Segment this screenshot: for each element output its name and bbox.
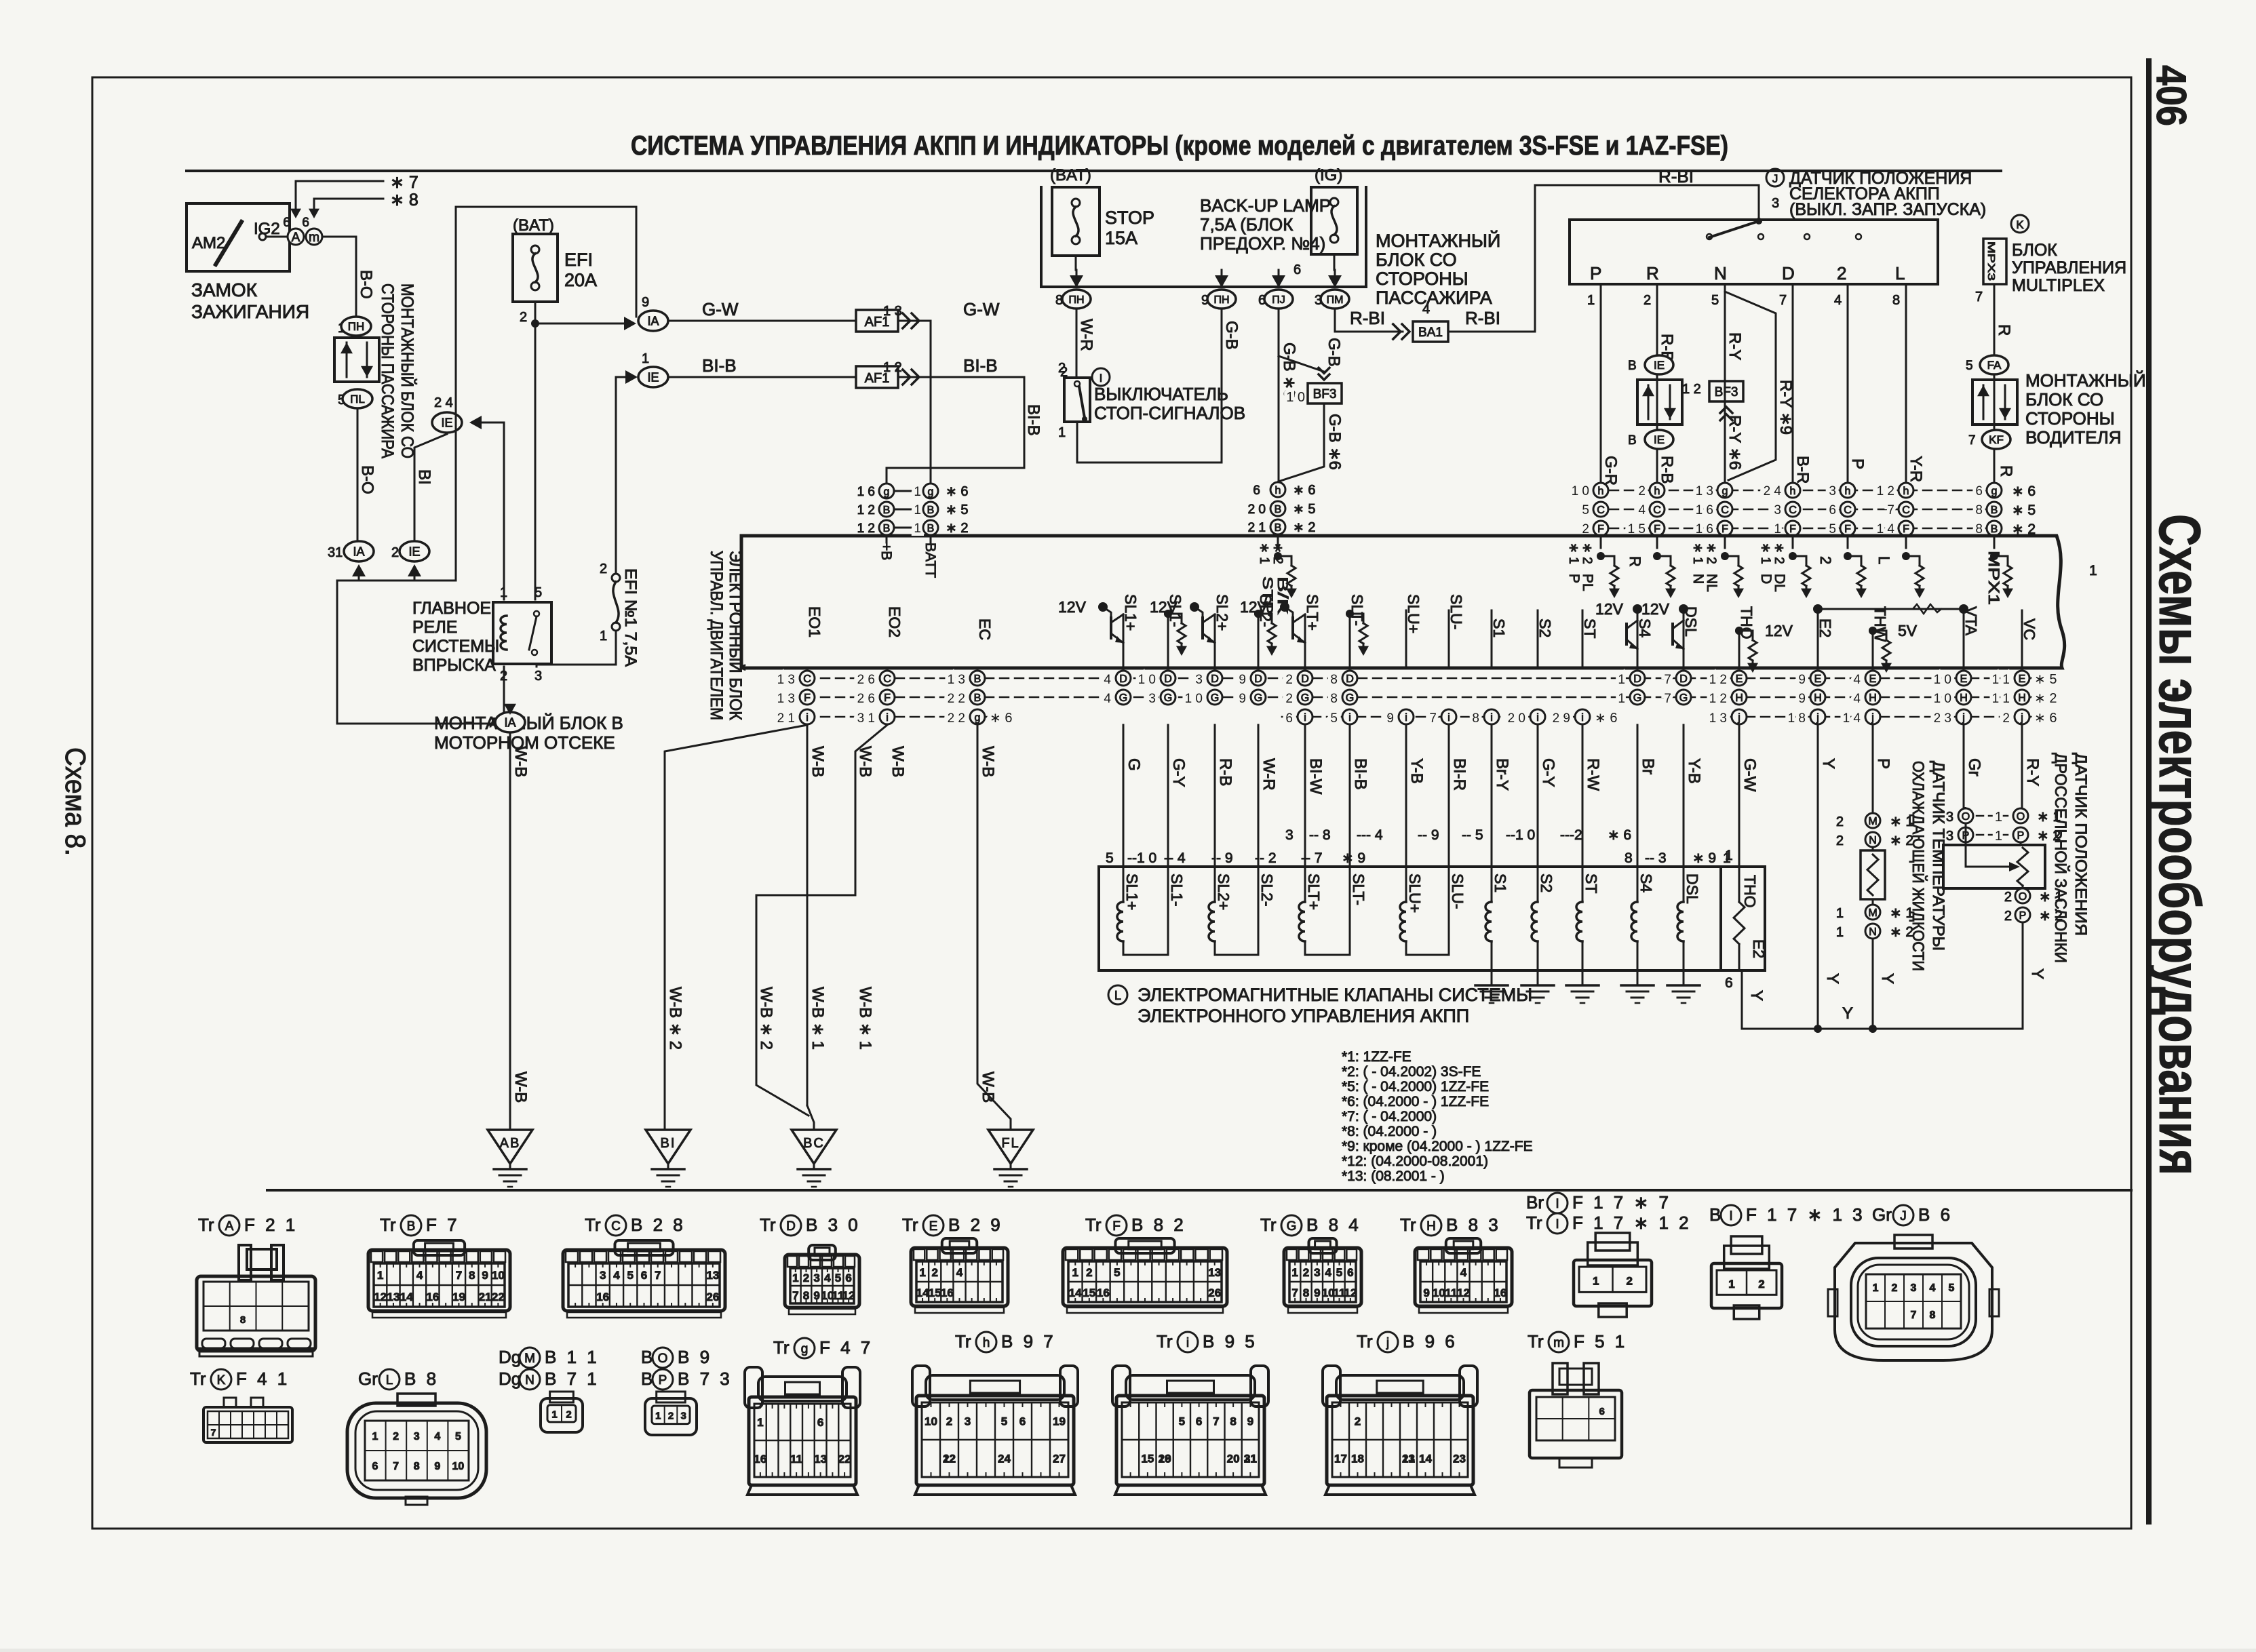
- svg-text:Dg: Dg: [499, 1347, 521, 1367]
- svg-text:6: 6: [1599, 1406, 1604, 1417]
- svg-text:10: 10: [452, 1461, 465, 1472]
- svg-text:h: h: [1275, 485, 1281, 496]
- svg-text:10: 10: [1433, 1286, 1445, 1299]
- svg-text:W-B ∗ 1: W-B ∗ 1: [809, 987, 827, 1050]
- svg-text:ВОДИТЕЛЯ: ВОДИТЕЛЯ: [2025, 427, 2122, 448]
- svg-text:1: 1: [2089, 563, 2097, 578]
- svg-text:ЭЛЕКТРОМАГНИТНЫЕ КЛАПАНЫ СИСТЕ: ЭЛЕКТРОМАГНИТНЫЕ КЛАПАНЫ СИСТЕМЫ: [1137, 985, 1532, 1005]
- svg-text:BI-W: BI-W: [1306, 758, 1325, 795]
- svg-text:g: g: [975, 712, 981, 724]
- svg-text:D: D: [1211, 673, 1219, 685]
- svg-text:∗ 1: ∗ 1: [1566, 543, 1580, 564]
- svg-text:15: 15: [929, 1286, 941, 1299]
- svg-text:O: O: [2017, 811, 2025, 823]
- svg-text:1 6: 1 6: [857, 485, 875, 499]
- svg-text:G: G: [1119, 692, 1127, 704]
- svg-text:Gr: Gr: [358, 1369, 378, 1389]
- svg-text:4: 4: [416, 1269, 423, 1282]
- svg-text:2 6: 2 6: [857, 673, 875, 687]
- svg-text:S2: S2: [1538, 873, 1555, 892]
- svg-text:11: 11: [790, 1453, 802, 1466]
- svg-text:ДАТЧИК ПОЛОЖЕНИЯ: ДАТЧИК ПОЛОЖЕНИЯ: [2072, 753, 2090, 936]
- svg-text:3: 3: [680, 1410, 686, 1421]
- svg-text:i: i: [1490, 712, 1493, 724]
- svg-text:E: E: [1736, 673, 1743, 685]
- svg-text:B 7 3: B 7 3: [678, 1369, 733, 1389]
- svg-text:O: O: [1962, 811, 1970, 823]
- svg-text:3: 3: [1772, 196, 1779, 211]
- svg-text:СТОРОНЫ: СТОРОНЫ: [1376, 269, 1469, 289]
- svg-text:1: 1: [914, 522, 921, 536]
- svg-text:m: m: [1553, 1336, 1564, 1350]
- svg-text:1: 1: [792, 1272, 798, 1284]
- svg-text:7: 7: [1887, 503, 1894, 517]
- svg-text:6: 6: [1829, 503, 1836, 517]
- svg-text:2: 2: [566, 1409, 571, 1420]
- svg-text:∗ 6: ∗ 6: [1608, 827, 1631, 843]
- svg-text:∗ 2: ∗ 2: [1580, 543, 1594, 564]
- svg-text:4: 4: [1930, 1282, 1936, 1294]
- svg-text:7: 7: [393, 1461, 399, 1472]
- svg-text:F 1 7 ∗ 1 2: F 1 7 ∗ 1 2: [1572, 1213, 1692, 1233]
- svg-text:BI-B: BI-B: [702, 355, 737, 376]
- svg-text:C: C: [1597, 505, 1605, 516]
- svg-text:B: B: [974, 673, 981, 685]
- svg-text:ГЛАВНОЕ: ГЛАВНОЕ: [412, 599, 491, 618]
- svg-text:I: I: [1555, 1217, 1559, 1232]
- svg-text:12: 12: [1344, 1286, 1357, 1299]
- svg-text:G: G: [1633, 692, 1641, 704]
- svg-text:5: 5: [1179, 1415, 1185, 1428]
- svg-text:9: 9: [434, 1461, 440, 1472]
- svg-text:Y: Y: [2028, 968, 2046, 979]
- svg-text:g: g: [801, 1342, 809, 1356]
- svg-text:1 2: 1 2: [857, 503, 875, 517]
- svg-text:h: h: [1845, 486, 1851, 497]
- svg-text:8: 8: [1230, 1415, 1236, 1428]
- svg-text:R: R: [1997, 465, 2015, 477]
- svg-text:406: 406: [2147, 65, 2194, 126]
- svg-text:i: i: [886, 712, 889, 724]
- svg-text:4: 4: [1104, 673, 1111, 687]
- svg-text:5: 5: [1330, 711, 1338, 726]
- svg-text:6: 6: [641, 1269, 647, 1282]
- svg-text:B: B: [974, 692, 981, 704]
- svg-text:ВЫКЛЮЧАТЕЛЬ: ВЫКЛЮЧАТЕЛЬ: [1094, 384, 1228, 404]
- svg-text:1 0: 1 0: [1934, 673, 1951, 687]
- svg-text:G-B: G-B: [1325, 338, 1343, 367]
- svg-text:12V: 12V: [1595, 600, 1624, 618]
- svg-text:M: M: [1868, 816, 1877, 827]
- svg-text:j: j: [1386, 1336, 1389, 1350]
- svg-text:S1: S1: [1492, 873, 1509, 892]
- svg-text:-- 3: -- 3: [1645, 850, 1667, 866]
- svg-text:B 9 7: B 9 7: [1001, 1331, 1056, 1352]
- svg-text:∗ 5: ∗ 5: [2012, 503, 2036, 518]
- svg-text:(ВЫКЛ. ЗАПР. ЗАПУСКА): (ВЫКЛ. ЗАПР. ЗАПУСКА): [1789, 200, 1986, 219]
- svg-text:7,5A (БЛОК: 7,5A (БЛОК: [1200, 214, 1293, 235]
- svg-text:5: 5: [627, 1269, 633, 1282]
- svg-text:L: L: [1875, 556, 1892, 564]
- svg-text:F: F: [1654, 524, 1660, 535]
- svg-text:Tr: Tr: [773, 1337, 790, 1358]
- svg-text:Tr: Tr: [585, 1215, 601, 1235]
- svg-text:R-BI: R-BI: [1350, 308, 1385, 328]
- svg-text:2 1: 2 1: [1248, 521, 1266, 535]
- svg-text:D: D: [1254, 673, 1262, 685]
- svg-text:G: G: [1254, 692, 1262, 704]
- svg-text:∗ 2: ∗ 2: [1293, 520, 1315, 535]
- svg-text:23: 23: [1453, 1453, 1466, 1466]
- svg-text:8: 8: [1975, 503, 1983, 517]
- svg-text:8: 8: [1930, 1310, 1936, 1321]
- svg-text:B 8 4: B 8 4: [1306, 1215, 1361, 1235]
- svg-text:16: 16: [941, 1286, 954, 1299]
- svg-text:ЭЛЕКТРОННОГО УПРАВЛЕНИЯ АКПП: ЭЛЕКТРОННОГО УПРАВЛЕНИЯ АКПП: [1137, 1006, 1469, 1026]
- svg-text:7: 7: [1291, 1286, 1298, 1299]
- svg-text:G-Y: G-Y: [1169, 758, 1188, 787]
- svg-text:M: M: [524, 1352, 535, 1366]
- svg-text:2: 2: [1892, 1282, 1898, 1294]
- svg-text:6: 6: [1294, 262, 1301, 277]
- svg-text:8: 8: [240, 1314, 246, 1326]
- svg-text:1: 1: [1618, 673, 1625, 687]
- svg-text:5: 5: [1582, 503, 1589, 517]
- svg-text:F: F: [884, 692, 891, 704]
- svg-text:BACK-UP LAMP: BACK-UP LAMP: [1200, 195, 1331, 216]
- svg-text:2: 2: [1644, 293, 1651, 308]
- svg-text:(BAT): (BAT): [513, 216, 554, 235]
- svg-text:22: 22: [492, 1291, 505, 1303]
- svg-text:16: 16: [596, 1291, 609, 1303]
- svg-text:8: 8: [1303, 1286, 1309, 1299]
- svg-text:H: H: [1735, 692, 1743, 704]
- svg-text:24: 24: [998, 1453, 1011, 1466]
- svg-text:B: B: [407, 1219, 416, 1234]
- svg-text:1 0: 1 0: [1138, 673, 1156, 687]
- svg-text:h: h: [1598, 486, 1604, 497]
- svg-text:2: 2: [1627, 1274, 1633, 1287]
- svg-text:B: B: [1628, 359, 1637, 373]
- svg-text:14: 14: [916, 1286, 929, 1299]
- svg-text:F: F: [1597, 524, 1604, 535]
- svg-text:Tr: Tr: [1260, 1215, 1277, 1235]
- svg-text:12V: 12V: [1058, 598, 1087, 616]
- svg-text:BI: BI: [415, 469, 433, 485]
- svg-text:6: 6: [1725, 975, 1733, 991]
- svg-text:BF3: BF3: [1313, 387, 1337, 401]
- svg-text:i: i: [1447, 712, 1450, 724]
- svg-text:K: K: [2016, 218, 2024, 231]
- svg-text:B: B: [1709, 1204, 1721, 1225]
- svg-text:J: J: [1772, 172, 1778, 185]
- svg-text:SL2+: SL2+: [1213, 594, 1231, 631]
- svg-text:1 8: 1 8: [1788, 711, 1806, 726]
- svg-text:22: 22: [943, 1453, 956, 1466]
- svg-text:B: B: [1275, 504, 1282, 515]
- svg-text:*2: ( - 04.2002) 3S-FE: *2: ( - 04.2002) 3S-FE: [1342, 1064, 1481, 1080]
- svg-text:G: G: [1679, 692, 1688, 704]
- svg-text:2: 2: [1285, 673, 1293, 687]
- svg-text:IA: IA: [353, 545, 364, 558]
- svg-text:L: L: [386, 1373, 393, 1388]
- svg-text:2: 2: [1355, 1415, 1361, 1428]
- svg-text:2: 2: [668, 1410, 674, 1421]
- svg-text:SLU+: SLU+: [1406, 873, 1424, 913]
- svg-text:9: 9: [1798, 673, 1806, 687]
- svg-text:4: 4: [1834, 293, 1842, 308]
- svg-text:БЛОК СО: БЛОК СО: [2025, 389, 2103, 410]
- svg-text:AF1: AF1: [865, 315, 890, 330]
- svg-text:i: i: [1581, 712, 1584, 724]
- svg-text:∗ 2: ∗ 2: [1772, 543, 1786, 564]
- svg-text:G: G: [1287, 1219, 1297, 1234]
- svg-text:W-B: W-B: [856, 746, 874, 777]
- svg-text:O: O: [2019, 891, 2027, 903]
- svg-text:1: 1: [757, 1416, 763, 1429]
- svg-text:j: j: [1816, 712, 1819, 724]
- svg-text:D: D: [1119, 673, 1127, 685]
- svg-text:1: 1: [1728, 1278, 1734, 1291]
- svg-text:8: 8: [1625, 850, 1633, 866]
- svg-text:МОНТАЖНЫЙ БЛОК В: МОНТАЖНЫЙ БЛОК В: [434, 713, 623, 733]
- svg-text:9: 9: [482, 1269, 488, 1282]
- svg-text:3 1: 3 1: [857, 711, 875, 726]
- svg-text:26: 26: [1208, 1286, 1221, 1299]
- svg-text:1 2: 1 2: [1709, 692, 1727, 706]
- svg-text:i: i: [1304, 712, 1306, 724]
- svg-text:2: 2: [1638, 484, 1646, 498]
- svg-text:I: I: [1555, 1197, 1559, 1211]
- svg-text:∗ 7: ∗ 7: [390, 173, 419, 192]
- svg-text:9: 9: [1423, 1286, 1429, 1299]
- svg-text:B: B: [927, 523, 935, 534]
- svg-text:N: N: [1714, 263, 1727, 283]
- svg-text:-- 8: -- 8: [1309, 827, 1331, 843]
- svg-text:1: 1: [914, 485, 921, 499]
- svg-text:W-B: W-B: [979, 1071, 997, 1103]
- svg-text:1: 1: [551, 1409, 557, 1420]
- svg-text:H: H: [1426, 1219, 1436, 1234]
- svg-text:2 0: 2 0: [1248, 503, 1266, 517]
- svg-text:S4: S4: [1637, 873, 1655, 892]
- svg-text:1 3: 1 3: [1696, 484, 1713, 498]
- svg-text:W-B: W-B: [809, 746, 827, 777]
- svg-text:4: 4: [613, 1269, 620, 1282]
- svg-text:N: N: [1869, 835, 1877, 846]
- svg-text:B 9: B 9: [678, 1347, 712, 1367]
- svg-text:A: A: [292, 231, 300, 245]
- svg-text:1 0: 1 0: [1286, 390, 1305, 405]
- svg-text:N: N: [525, 1373, 534, 1388]
- svg-text:H: H: [1869, 692, 1877, 704]
- svg-text:K: K: [217, 1373, 226, 1388]
- svg-text:2 9: 2 9: [1553, 711, 1570, 726]
- svg-text:B-R: B-R: [1793, 456, 1812, 484]
- svg-text:7: 7: [655, 1269, 661, 1282]
- svg-text:B 3 0: B 3 0: [806, 1215, 861, 1235]
- svg-text:W-B: W-B: [511, 1071, 530, 1103]
- svg-text:1 3: 1 3: [1709, 711, 1727, 726]
- svg-text:W-B: W-B: [511, 746, 530, 777]
- svg-text:I: I: [1100, 372, 1103, 385]
- svg-text:1: 1: [500, 585, 507, 600]
- svg-text:1: 1: [655, 1410, 661, 1421]
- svg-text:7: 7: [1968, 433, 1976, 448]
- svg-text:-- 9: -- 9: [1418, 827, 1439, 843]
- svg-text:7: 7: [1664, 692, 1671, 706]
- svg-text:14: 14: [400, 1291, 413, 1303]
- svg-text:---2: ---2: [1560, 827, 1582, 843]
- svg-text:3: 3: [1314, 1266, 1320, 1279]
- svg-text:7: 7: [1975, 290, 1983, 304]
- svg-text:1: 1: [377, 1269, 383, 1282]
- svg-text:SLU-: SLU-: [1449, 873, 1466, 909]
- svg-text:2: 2: [2004, 909, 2012, 924]
- svg-text:5: 5: [1001, 1415, 1007, 1428]
- svg-text:∗ 6: ∗ 6: [946, 484, 968, 499]
- svg-text:F: F: [1722, 524, 1728, 535]
- svg-text:P: P: [1848, 458, 1867, 469]
- svg-text:3: 3: [813, 1272, 819, 1284]
- svg-text:IE: IE: [647, 370, 659, 384]
- svg-text:BF3: BF3: [1715, 385, 1738, 399]
- svg-text:6: 6: [845, 1272, 851, 1284]
- svg-text:4: 4: [434, 1431, 440, 1442]
- svg-text:13: 13: [814, 1453, 827, 1466]
- svg-text:F: F: [1112, 1219, 1121, 1234]
- svg-text:СТОРОНЫ: СТОРОНЫ: [2025, 408, 2115, 429]
- svg-text:g: g: [1991, 486, 1998, 497]
- svg-text:2 2: 2 2: [948, 711, 965, 726]
- svg-text:FA: FA: [1987, 359, 2002, 372]
- svg-text:7: 7: [1429, 711, 1437, 726]
- svg-text:∗ 6: ∗ 6: [2034, 711, 2057, 726]
- svg-text:G-B ∗6: G-B ∗6: [1325, 414, 1344, 470]
- svg-text:8: 8: [414, 1461, 420, 1472]
- svg-text:21: 21: [479, 1291, 492, 1303]
- svg-text:j: j: [1737, 712, 1740, 724]
- svg-text:g: g: [928, 486, 934, 498]
- svg-text:5V: 5V: [1898, 622, 1918, 640]
- svg-text:(BAT): (BAT): [1050, 166, 1091, 184]
- svg-text:9: 9: [1247, 1415, 1253, 1428]
- svg-text:E: E: [1869, 673, 1877, 685]
- svg-text:∗ 1: ∗ 1: [1257, 543, 1271, 564]
- svg-text:12V: 12V: [1641, 600, 1670, 618]
- svg-text:5: 5: [1966, 359, 1973, 373]
- svg-text:h: h: [983, 1336, 990, 1350]
- svg-text:R-Y ∗9: R-Y ∗9: [1776, 380, 1795, 435]
- svg-text:5: 5: [1711, 293, 1719, 308]
- svg-text:W-B: W-B: [889, 746, 907, 777]
- svg-text:1: 1: [1836, 906, 1844, 921]
- svg-text:3: 3: [1829, 484, 1836, 498]
- svg-text:6: 6: [1019, 1415, 1026, 1428]
- svg-text:E: E: [2019, 673, 2026, 685]
- svg-text:B: B: [883, 523, 891, 534]
- svg-text:THO: THO: [1741, 875, 1759, 908]
- svg-text:C: C: [1844, 505, 1852, 516]
- svg-text:--- 4: --- 4: [1357, 827, 1383, 843]
- svg-text:Gr: Gr: [1872, 1204, 1892, 1225]
- svg-text:P: P: [1566, 574, 1582, 583]
- svg-text:∗ 2: ∗ 2: [1270, 543, 1285, 564]
- svg-text:1 3: 1 3: [777, 673, 795, 687]
- svg-text:∗ 8: ∗ 8: [390, 191, 419, 210]
- svg-text:EO2: EO2: [886, 606, 903, 637]
- svg-text:2: 2: [1817, 556, 1834, 564]
- svg-text:KF: KF: [1989, 433, 2004, 446]
- svg-text:*12: (04.2000-08.2001): *12: (04.2000-08.2001): [1342, 1154, 1488, 1169]
- svg-text:i: i: [806, 712, 809, 724]
- svg-text:22: 22: [838, 1453, 851, 1466]
- svg-text:1: 1: [1058, 425, 1066, 440]
- svg-text:R-Y: R-Y: [2023, 758, 2042, 786]
- svg-text:3: 3: [1911, 1282, 1917, 1294]
- svg-text:8: 8: [1472, 711, 1479, 726]
- svg-text:j: j: [1871, 712, 1874, 724]
- svg-text:∗ 9: ∗ 9: [1342, 850, 1365, 866]
- svg-text:УПРАВЛЕНИЯ: УПРАВЛЕНИЯ: [2012, 258, 2126, 277]
- svg-text:SLU+: SLU+: [1405, 594, 1422, 633]
- svg-text:BI-B: BI-B: [1351, 758, 1369, 790]
- svg-text:1: 1: [1725, 848, 1733, 863]
- svg-text:СИСТЕМЫ: СИСТЕМЫ: [412, 637, 499, 656]
- svg-text:C: C: [883, 673, 891, 685]
- svg-text:G-R: G-R: [1601, 456, 1620, 486]
- svg-text:1: 1: [1072, 1266, 1078, 1279]
- svg-text:VC: VC: [2021, 618, 2038, 640]
- svg-text:IA: IA: [647, 314, 659, 328]
- svg-text:∗ 5: ∗ 5: [1293, 502, 1315, 517]
- svg-text:2: 2: [393, 1431, 399, 1442]
- svg-text:P: P: [659, 1373, 667, 1388]
- svg-text:4: 4: [1853, 673, 1861, 687]
- svg-text:P: P: [2017, 830, 2025, 842]
- svg-text:IA: IA: [504, 715, 516, 729]
- svg-text:3: 3: [1285, 827, 1294, 843]
- svg-text:BI: BI: [661, 1136, 676, 1151]
- svg-text:R-BI: R-BI: [1658, 166, 1694, 186]
- svg-text:B 8: B 8: [404, 1369, 439, 1389]
- svg-text:BI-R: BI-R: [1450, 758, 1469, 791]
- svg-text:m: m: [309, 231, 319, 245]
- svg-text:3: 3: [1774, 503, 1781, 517]
- svg-text:B: B: [641, 1347, 653, 1367]
- svg-text:B: B: [927, 505, 935, 516]
- svg-text:31: 31: [328, 545, 343, 560]
- svg-text:A: A: [225, 1219, 234, 1234]
- svg-text:STOP: STOP: [1105, 208, 1154, 228]
- svg-text:9: 9: [1239, 673, 1246, 687]
- svg-text:O: O: [658, 1352, 668, 1366]
- svg-text:P: P: [1590, 263, 1601, 283]
- svg-text:1 2: 1 2: [1682, 382, 1701, 397]
- svg-text:F 1 7 ∗ 7: F 1 7 ∗ 7: [1572, 1192, 1671, 1213]
- svg-text:F 5 1: F 5 1: [1574, 1331, 1627, 1352]
- svg-text:6: 6: [283, 216, 290, 230]
- svg-text:12: 12: [842, 1289, 855, 1302]
- svg-text:H: H: [2018, 692, 2026, 704]
- svg-text:MULTIPLEX: MULTIPLEX: [2012, 276, 2105, 295]
- svg-text:B 1 1: B 1 1: [545, 1347, 600, 1367]
- svg-text:G: G: [1301, 692, 1309, 704]
- svg-text:Tr: Tr: [1156, 1331, 1173, 1352]
- svg-text:5: 5: [1336, 1266, 1342, 1279]
- svg-text:F: F: [1844, 524, 1851, 535]
- svg-text:I: I: [1729, 1209, 1732, 1223]
